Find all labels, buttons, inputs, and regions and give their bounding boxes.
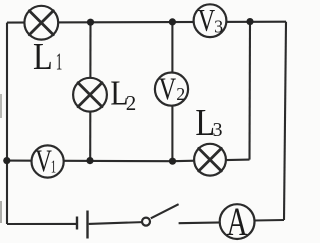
lamp L2	[73, 78, 107, 112]
label L2	[110, 74, 136, 115]
voltmeter V3	[194, 4, 227, 39]
switch S pivot	[142, 218, 150, 226]
junction dot middle left	[3, 157, 10, 164]
junction dot middle V2	[169, 158, 176, 165]
svg-text:L: L	[33, 35, 53, 77]
label L1	[33, 35, 62, 77]
svg-text:3: 3	[214, 16, 223, 36]
svg-text:V: V	[35, 144, 52, 180]
switch S blade	[151, 204, 179, 218]
wire middle horizontal left	[7, 160, 173, 163]
wire battery to switch	[89, 222, 146, 224]
junction dot top right	[246, 18, 253, 25]
wire top horizontal	[7, 21, 286, 24]
svg-text:V: V	[159, 72, 177, 107]
junction dot top V2	[169, 18, 176, 25]
ammeter A	[220, 199, 255, 243]
wire ammeter to right vertical	[237, 219, 284, 222]
voltmeter V1	[31, 144, 63, 180]
wire right vertical	[284, 22, 286, 220]
wire V2 branch vertical	[171, 22, 173, 161]
wire left vertical	[6, 23, 8, 224]
svg-text:2: 2	[126, 91, 137, 115]
svg-text:1: 1	[51, 158, 56, 177]
wire L2 branch vertical	[89, 22, 91, 160]
lamp L3	[194, 144, 226, 176]
wire bottom left to battery	[7, 223, 76, 225]
svg-text:3: 3	[213, 119, 223, 141]
svg-text:2: 2	[176, 84, 185, 104]
wire middle horizontal right	[173, 160, 250, 162]
junction dot middle L2	[86, 157, 93, 164]
scan artifact left edge streak upper	[0, 94, 2, 118]
wire right middle vertical	[248, 22, 251, 160]
junction dot top L2	[87, 19, 94, 26]
voltmeter V2	[155, 72, 188, 107]
svg-text:A: A	[227, 199, 248, 243]
svg-text:V: V	[198, 4, 216, 39]
wire switch contact to ammeter	[179, 222, 237, 223]
scan artifact left edge streak lower	[0, 201, 2, 223]
lamp L1	[24, 6, 58, 40]
battery short plate	[76, 217, 78, 230]
battery long plate	[86, 211, 88, 239]
svg-text:1: 1	[56, 50, 63, 76]
label L3	[195, 102, 222, 144]
